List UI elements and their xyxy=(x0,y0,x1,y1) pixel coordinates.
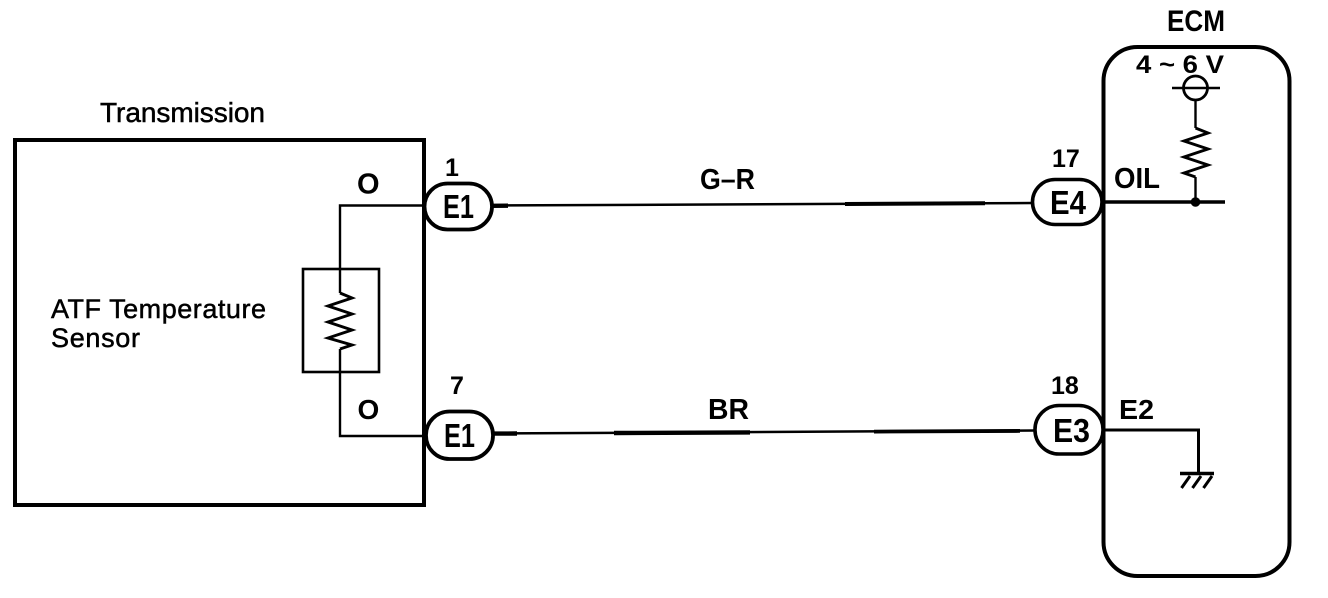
wire BR from E1 to E3 xyxy=(493,431,1035,434)
ATF temperature sensor body box xyxy=(303,269,379,372)
label ATF Temperature Sensor xyxy=(51,294,266,353)
svg-text:G–R: G–R xyxy=(700,164,755,196)
svg-text:BR: BR xyxy=(708,394,749,426)
connector E1 pin 1 capsule xyxy=(425,184,493,230)
transmission enclosure box xyxy=(15,140,424,505)
wire from resistor to OIL node xyxy=(1194,177,1196,202)
svg-text:O: O xyxy=(358,394,380,425)
wire from power symbol to pull-up resistor xyxy=(1194,100,1196,128)
power supply symbol circle with bar xyxy=(1172,76,1220,100)
svg-text:O: O xyxy=(357,169,380,201)
wire BR dark scan segment xyxy=(614,430,750,435)
wire from sensor up to pin 1 xyxy=(340,206,424,294)
svg-text:OIL: OIL xyxy=(1114,163,1160,195)
svg-text:1: 1 xyxy=(445,154,459,182)
connector E4 pin 17 capsule xyxy=(1033,180,1103,225)
ECM enclosure rounded box xyxy=(1104,47,1290,576)
wire G-R dark scan segment xyxy=(845,201,985,206)
svg-text:4 ~ 6 V: 4 ~ 6 V xyxy=(1136,51,1224,79)
svg-text:E3: E3 xyxy=(1053,412,1090,449)
junction dot at OIL node xyxy=(1191,197,1201,207)
svg-text:ATF Temperature: ATF Temperature xyxy=(51,294,266,324)
svg-text:E2: E2 xyxy=(1119,394,1154,425)
connector E3 pin 18 capsule xyxy=(1035,406,1103,455)
ground symbol xyxy=(1180,474,1214,489)
connector E1 pin 7 capsule xyxy=(426,412,493,460)
svg-text:Sensor: Sensor xyxy=(51,323,140,353)
svg-text:7: 7 xyxy=(450,372,464,400)
pull-up resistor inside ECM xyxy=(1184,128,1208,177)
wire from sensor down to pin 7 xyxy=(340,349,426,436)
svg-text:E1: E1 xyxy=(443,188,474,225)
OIL node wire inside ECM xyxy=(1102,200,1225,204)
sensor thermistor resistor element xyxy=(328,293,352,349)
wire G-R from E1 to E4 xyxy=(492,203,1033,206)
svg-text:17: 17 xyxy=(1052,145,1080,173)
svg-text:18: 18 xyxy=(1051,372,1079,400)
wire E2 from E3 to ground xyxy=(1102,430,1199,472)
svg-text:E1: E1 xyxy=(444,417,475,454)
svg-text:ECM: ECM xyxy=(1167,5,1225,38)
svg-text:E4: E4 xyxy=(1050,184,1087,221)
svg-text:Transmission: Transmission xyxy=(100,97,265,128)
